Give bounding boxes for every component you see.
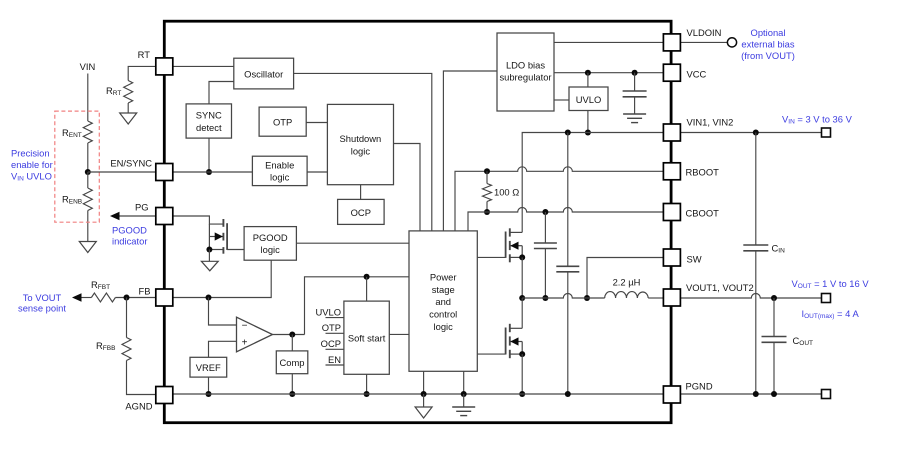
- wire LS gate from power stage: [477, 353, 505, 355]
- node CIN junction on VIN: [753, 130, 759, 136]
- svg-text:EN: EN: [328, 354, 341, 365]
- transistor Q3 gate bar: [226, 223, 228, 250]
- pin VOUT1 VOUT2: [663, 289, 680, 306]
- node VCC bypass cap junction: [632, 70, 638, 76]
- transistor Q1 high-side body-source tie: [521, 246, 523, 258]
- node CBOOT cap at SW node: [542, 295, 548, 301]
- svg-text:and: and: [435, 296, 451, 307]
- svg-text:logic: logic: [351, 145, 371, 156]
- transistor Q2 low-side channel bar (segmented): [509, 324, 511, 332]
- wire VIN1 pin to input terminal: [681, 132, 822, 134]
- svg-text:VIN UVLO: VIN UVLO: [11, 171, 52, 183]
- pin FB: [156, 289, 173, 306]
- svg-text:LDO bias: LDO bias: [506, 60, 545, 71]
- svg-text:PGND: PGND: [686, 381, 713, 392]
- wire Comp to ground bus: [291, 374, 293, 394]
- svg-text:VIN1, VIN2: VIN1, VIN2: [687, 117, 734, 128]
- svg-text:(from VOUT): (from VOUT): [741, 50, 795, 61]
- op-amp U1 error amplifier: [237, 317, 273, 352]
- transistor Q1 high-side channel bar (segmented): [509, 228, 511, 236]
- ground (bars) below VCC cap: [623, 113, 646, 115]
- capacitor CIN: [743, 244, 768, 246]
- svg-text:external bias: external bias: [741, 39, 794, 50]
- wire COUT from VOUT line: [773, 298, 775, 337]
- wire error amp output: [273, 334, 305, 336]
- node Q3 source junction: [206, 247, 212, 253]
- svg-text:Shutdown: Shutdown: [340, 133, 382, 144]
- svg-text:+: +: [242, 337, 248, 348]
- node CIN ground junction: [753, 391, 759, 397]
- wire PGND pin to ground terminal: [681, 393, 822, 395]
- wire Q3 gate to PGOOD logic: [227, 249, 244, 251]
- pin VIN1 VIN2: [663, 124, 680, 141]
- wire Oscillator to SYNC detect: [209, 82, 234, 105]
- wire COUT to PGND line: [773, 342, 775, 394]
- wire PG pin to PGOOD FET drain: [173, 216, 224, 224]
- block Enable logic: [252, 156, 307, 185]
- wire FB junction down to error amp inverting input: [209, 298, 237, 326]
- svg-text:OTP: OTP: [322, 322, 341, 333]
- wire LDO bias to UVLO left: [554, 99, 569, 101]
- wire SYNC detect down to EN/SYNC net: [208, 138, 210, 172]
- node VREF ground junction: [206, 391, 212, 397]
- svg-text:CIN: CIN: [772, 243, 786, 255]
- wire VREF to non-inverting input: [209, 341, 237, 357]
- svg-text:−: −: [242, 321, 248, 332]
- wire inductor to VOUT pin: [648, 297, 663, 299]
- wire CIN from VIN line: [755, 133, 757, 246]
- wire Soft start to ground bus: [366, 374, 368, 394]
- svg-text:Oscillator: Oscillator: [244, 68, 283, 79]
- wire RFBT to FB pin: [115, 297, 155, 299]
- pin PG: [156, 208, 173, 225]
- capacitor internal HF bypass: [556, 265, 579, 267]
- wire HS source to SW node: [521, 257, 523, 298]
- node COUT ground junction: [771, 391, 777, 397]
- svg-text:OTP: OTP: [273, 117, 292, 128]
- node VIN rail to internal cap: [565, 130, 571, 136]
- wire FB pin to PGOOD logic: [173, 260, 272, 297]
- signal stub OTP into Soft start: [326, 332, 344, 334]
- block Soft start: [344, 301, 389, 374]
- svg-text:OCP: OCP: [351, 207, 371, 218]
- resistor RFBT: [91, 293, 115, 302]
- wire LDO bias to VCC pin: [554, 72, 664, 74]
- svg-text:RRT: RRT: [106, 85, 121, 97]
- svg-text:RFBT: RFBT: [91, 279, 110, 291]
- transistor Q2 low-side body stub with arrow: [510, 341, 522, 343]
- wire LS source to ground bus: [521, 354, 523, 394]
- wire CIN to PGND line: [755, 251, 757, 394]
- node Soft start ground junction: [364, 391, 370, 397]
- signal stub OCP into Soft start: [326, 348, 344, 350]
- ground (bars) below power stage: [452, 406, 475, 408]
- svg-text:indicator: indicator: [112, 236, 147, 247]
- ground (open triangle) below power stage: [415, 407, 432, 418]
- svg-text:UVLO: UVLO: [315, 306, 341, 317]
- svg-text:CBOOT: CBOOT: [686, 208, 720, 219]
- transistor Q3 PGOOD open-drain: channel bar (segmented): [222, 219, 224, 227]
- pin EN/SYNC: [156, 164, 173, 181]
- wire RFBB to AGND pin: [127, 361, 156, 395]
- svg-text:UVLO: UVLO: [576, 94, 602, 105]
- IC boundary box: [164, 21, 671, 423]
- svg-text:Optional: Optional: [751, 27, 786, 38]
- resistor RENB: [83, 188, 92, 211]
- svg-text:VCC: VCC: [687, 69, 707, 80]
- node Comp ground junction: [289, 391, 295, 397]
- svg-text:VOUT1, VOUT2: VOUT1, VOUT2: [686, 282, 754, 293]
- pin RBOOT: [663, 163, 680, 180]
- node FB internal junction: [206, 295, 212, 301]
- svg-text:PG: PG: [135, 202, 149, 213]
- transistor Q1 high-side source stub: [510, 256, 522, 258]
- pin CBOOT: [663, 204, 680, 221]
- wire to VCC bypass cap: [634, 73, 636, 91]
- wire Oscillator to power stage: [294, 73, 432, 231]
- capacitor COUT: [762, 336, 787, 338]
- svg-text:SYNC: SYNC: [196, 110, 222, 121]
- arrowhead PG indicator: [110, 212, 120, 220]
- svg-text:Soft start: Soft start: [348, 332, 386, 343]
- wire LS drain to SW node: [521, 298, 523, 328]
- precision enable dashed highlight box: [55, 111, 100, 222]
- svg-text:logic: logic: [270, 171, 290, 182]
- svg-text:sense point: sense point: [18, 303, 66, 314]
- wire Shutdown logic to OCP: [360, 185, 362, 200]
- wire 100 ohm to CBOOT line: [486, 202, 488, 213]
- block Shutdown logic: [327, 104, 393, 184]
- wire VIN1 pin rail to HS FET drain: [522, 133, 663, 233]
- svg-text:OCP: OCP: [321, 338, 341, 349]
- wire Shutdown logic to power stage: [394, 144, 421, 231]
- node power stage ground left: [421, 391, 427, 397]
- svg-text:RENB: RENB: [62, 194, 82, 206]
- resistor RRT wire from RT pin: [128, 66, 155, 80]
- svg-text:Comp: Comp: [279, 357, 304, 368]
- node SW at HS source: [519, 295, 525, 301]
- capacitor VCC bypass: [623, 90, 647, 92]
- svg-text:control: control: [429, 309, 457, 320]
- pin SW: [663, 249, 680, 266]
- ground (open triangle) below PGOOD FET: [201, 261, 218, 271]
- wire RENB to ground: [87, 211, 89, 242]
- wire OTP to Shutdown logic: [306, 122, 327, 124]
- svg-text:VOUT = 1 V to 16 V: VOUT = 1 V to 16 V: [792, 278, 870, 290]
- wire HS gate from power stage: [477, 256, 505, 258]
- wire PGOOD logic to power stage: [296, 242, 409, 244]
- svg-text:Power: Power: [430, 272, 457, 283]
- pin VCC: [663, 64, 680, 81]
- svg-text:VIN = 3 V to 36 V: VIN = 3 V to 36 V: [782, 114, 853, 126]
- FB sense wire with arrow to VOUT sense point: [81, 297, 91, 299]
- wire down to UVLO: [587, 73, 589, 87]
- wire RRT to ground: [127, 103, 129, 113]
- ground (open triangle) below RENB: [79, 242, 96, 253]
- block VREF: [190, 357, 227, 377]
- wire CBOOT cap top: [544, 212, 546, 243]
- wire RENT to EN/SYNC node: [87, 143, 89, 172]
- svg-text:RT: RT: [138, 49, 151, 60]
- svg-text:Precision: Precision: [11, 148, 50, 159]
- pin PGND: [663, 386, 680, 403]
- resistor 100 ohm: [483, 184, 492, 202]
- svg-text:AGND: AGND: [125, 401, 152, 412]
- svg-text:enable for: enable for: [11, 159, 53, 170]
- wire VLDOIN to external bias terminal: [681, 41, 728, 43]
- node VCC-UVLO junction: [585, 70, 591, 76]
- block Oscillator: [234, 58, 294, 89]
- svg-text:RFBB: RFBB: [96, 340, 115, 352]
- wire internal HF cap from VIN rail: [567, 133, 569, 267]
- wire internal HF cap to ground bus: [567, 272, 569, 394]
- capacitor CBOOT: [534, 242, 557, 244]
- wire down to Soft start: [366, 277, 368, 301]
- block Power stage and control logic: [409, 231, 477, 371]
- node EN divider junction: [85, 169, 91, 175]
- wire FB junction down to RFBB: [126, 298, 128, 338]
- wire power stage to ground (right): [463, 371, 465, 394]
- wire CBOOT pin line with hops to power stage: [468, 208, 664, 231]
- wire RBOOT pin line with hops to power stage: [455, 171, 483, 231]
- PG output wire with arrow: [118, 215, 156, 217]
- wire SW pin sense line: [587, 258, 664, 299]
- wire Q3 source to ground: [208, 250, 210, 262]
- terminal square VIN: [822, 128, 831, 137]
- svg-text:To VOUT: To VOUT: [23, 292, 62, 303]
- wire EN junction to RENB: [87, 172, 89, 188]
- svg-text:Enable: Enable: [265, 159, 294, 170]
- svg-text:VREF: VREF: [196, 362, 221, 373]
- arrowhead To VOUT sense point: [72, 293, 82, 301]
- wire cap to ground: [634, 97, 636, 114]
- wire CBOOT cap to SW node: [544, 249, 546, 299]
- node SW sense junction: [584, 295, 590, 301]
- block OCP: [338, 199, 385, 224]
- transistor Q1 high-side drain stub: [510, 231, 522, 233]
- node FB divider junction: [124, 295, 130, 301]
- wire LDO bias to VLDOIN pin: [554, 41, 664, 43]
- transistor Q2 low-side drain stub: [510, 327, 522, 329]
- transistor Q2 low-side source stub: [510, 353, 522, 355]
- block Comp: [276, 351, 308, 374]
- wire to 100 ohm resistor: [486, 171, 488, 183]
- resistor RRT: [124, 81, 133, 104]
- node soft start tap: [364, 274, 370, 280]
- wire comp junction to Comp block: [291, 335, 293, 351]
- svg-text:EN/SYNC: EN/SYNC: [110, 158, 152, 169]
- block PGOOD logic: [244, 227, 296, 261]
- wire internal analog ground bus: [173, 393, 664, 395]
- svg-text:subregulator: subregulator: [499, 72, 551, 83]
- wire Enable logic to Shutdown logic: [307, 171, 327, 173]
- block OTP: [259, 107, 306, 136]
- transistor Q1 high-side gate bar: [505, 232, 507, 258]
- pin RT: [156, 58, 173, 75]
- node COUT junction: [771, 295, 777, 301]
- inductor 2.2 uH: [605, 292, 649, 298]
- node comp junction: [289, 332, 295, 338]
- svg-text:RENT: RENT: [62, 127, 82, 139]
- resistor RENT: [83, 121, 92, 143]
- signal stub EN into Soft start: [326, 364, 344, 366]
- wire LDO bias to power stage: [443, 71, 497, 231]
- svg-text:PGOOD: PGOOD: [112, 225, 147, 236]
- node power stage ground right: [461, 391, 467, 397]
- wire RT pin to Oscillator: [173, 65, 234, 67]
- transistor Q3 drain/body-source tie: [208, 224, 210, 249]
- node HF cap ground junction: [565, 391, 571, 397]
- node 100 ohm bottom junction: [484, 209, 490, 215]
- terminal square PGND: [822, 390, 831, 399]
- wire error amp output up and to power stage: [305, 277, 410, 335]
- svg-text:COUT: COUT: [793, 335, 814, 347]
- transistor Q3 source stub: [209, 249, 223, 251]
- terminal open circle VLDOIN: [727, 38, 736, 47]
- wire to open triangle ground: [423, 394, 425, 407]
- ground (open triangle) below RRT: [120, 113, 137, 124]
- wire EN/SYNC pin to Enable logic: [173, 171, 253, 173]
- transistor Q3 body stub with arrow: [209, 236, 223, 238]
- block SYNC detect: [186, 104, 231, 138]
- wire SW node line with hop: [522, 294, 605, 299]
- resistor RFBB: [122, 338, 131, 361]
- transistor Q1 high-side body stub with arrow: [510, 245, 522, 247]
- block LDO bias subregulator: [497, 33, 554, 111]
- wire EN junction to EN/SYNC pin: [88, 171, 156, 173]
- svg-text:VLDOIN: VLDOIN: [687, 27, 722, 38]
- node EN/SYNC junction: [206, 169, 212, 175]
- svg-text:detect: detect: [196, 122, 222, 133]
- wire Soft start to power stage: [389, 333, 409, 335]
- svg-text:logic: logic: [434, 321, 454, 332]
- wire VIN stub down to RENT: [87, 74, 89, 122]
- transistor Q2 low-side gate bar: [505, 328, 507, 355]
- wire power stage to ground (left): [423, 371, 425, 394]
- svg-text:2.2 µH: 2.2 µH: [613, 277, 641, 288]
- block UVLO: [569, 87, 608, 111]
- svg-text:SW: SW: [687, 254, 702, 265]
- wire VREF to ground bus: [208, 377, 210, 394]
- svg-text:stage: stage: [432, 284, 455, 295]
- terminal square VOUT: [822, 294, 831, 303]
- svg-text:PGOOD: PGOOD: [253, 232, 288, 243]
- node LS source at ground bus: [519, 391, 525, 397]
- pin VLDOIN: [663, 34, 680, 51]
- svg-text:FB: FB: [139, 286, 151, 297]
- svg-text:100 Ω: 100 Ω: [494, 187, 519, 198]
- node UVLO-VIN junction: [585, 130, 591, 136]
- svg-text:IOUT(max) = 4 A: IOUT(max) = 4 A: [802, 308, 860, 320]
- svg-text:VIN: VIN: [80, 61, 96, 72]
- node CBOOT cap junction: [542, 209, 548, 215]
- pin AGND: [156, 387, 173, 404]
- svg-text:RBOOT: RBOOT: [686, 166, 720, 177]
- transistor Q2 low-side body-source tie: [521, 342, 523, 355]
- wire VOUT pin to output terminal with hop: [681, 294, 822, 299]
- signal stub UVLO into Soft start: [326, 317, 344, 319]
- svg-text:logic: logic: [261, 244, 281, 255]
- wire to bar ground: [463, 394, 465, 407]
- wire UVLO to VIN net: [587, 111, 589, 133]
- node 100 ohm top junction: [484, 168, 490, 174]
